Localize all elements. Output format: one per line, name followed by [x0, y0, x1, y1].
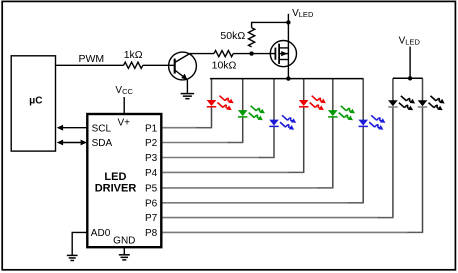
svg-text:VLED: VLED [292, 8, 314, 19]
svg-text:VCC: VCC [115, 85, 133, 96]
svg-text:P7: P7 [145, 213, 158, 224]
svg-text:P2: P2 [145, 138, 158, 149]
svg-text:PWM: PWM [79, 53, 105, 65]
svg-text:P3: P3 [145, 153, 158, 164]
svg-text:DRIVER: DRIVER [95, 182, 137, 194]
svg-text:P8: P8 [145, 228, 158, 239]
svg-text:P1: P1 [145, 123, 158, 134]
svg-text:V+: V+ [117, 117, 130, 128]
svg-text:AD0: AD0 [91, 228, 111, 239]
svg-text:P5: P5 [145, 184, 158, 195]
svg-text:1kΩ: 1kΩ [124, 49, 143, 61]
svg-text:10kΩ: 10kΩ [212, 60, 237, 72]
svg-text:μC: μC [29, 95, 42, 106]
svg-text:VLED: VLED [399, 35, 421, 46]
svg-text:50kΩ: 50kΩ [220, 30, 245, 42]
svg-text:GND: GND [113, 235, 135, 246]
svg-text:P6: P6 [145, 198, 158, 209]
svg-text:SDA: SDA [92, 138, 113, 149]
svg-text:SCL: SCL [92, 123, 112, 134]
svg-text:LED: LED [104, 171, 126, 183]
svg-text:P4: P4 [145, 168, 158, 179]
